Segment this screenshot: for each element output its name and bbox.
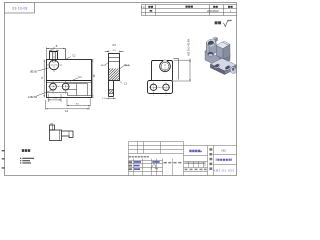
main body outline [47,60,92,98]
right block front face [216,45,223,59]
gap filler under block [221,54,230,63]
top-left file box [5,3,35,14]
left grid cols [137,142,139,154]
right block top bevel [222,41,230,45]
small dim 1.6 over slot [49,49,52,51]
plate right side [220,55,225,67]
middle/right [207,146,209,176]
center lines front view [46,47,71,94]
overall bottom dim [46,108,89,110]
dimensions front view [37,47,94,109]
slot walls [52,52,54,63]
dim 8 top [46,47,65,49]
plate front face [205,51,220,68]
svg-text:03-10-08: 03-10-08 [12,7,27,11]
svg-text:14: 14 [65,109,69,113]
right tab rounded end [230,67,236,74]
svg-text:Ø5.05: Ø5.05 [30,70,37,73]
left vertical dim [43,60,45,98]
flange circles [50,83,57,90]
flange right edge [225,65,237,75]
page border frame [5,3,237,176]
mystery edge / ext of dim 8 [65,48,67,59]
title block texts [129,148,213,170]
section dims [105,50,131,99]
svg-text:M2.5X0.45-6H: M2.5X0.45-6H [188,39,190,56]
hatch [109,69,120,94]
right block top face [216,42,228,49]
right vertical dim [92,60,94,98]
small stacked dims below circles [48,99,61,101]
boss [50,52,58,60]
bottom dim right part [67,104,90,106]
svg-text:M2.5: M2.5 [124,64,130,66]
C1 leader [66,57,71,60]
svg-text:XB2: XB2 [221,148,226,152]
boss top ring [206,38,217,46]
flange top face [210,58,236,71]
slot notch on boss top [213,37,217,39]
C4 leader [70,78,78,81]
roughness symbol (其余 check) [215,20,232,26]
leader phi2.56 [37,90,52,96]
right block right face [223,44,230,59]
flange chamfer line [47,82,92,84]
inner step lines bottom [47,92,68,94]
left grid rows [129,145,184,147]
svg-text:1.0: 1.0 [141,6,145,9]
svg-text:XB2-01-003: XB2-01-003 [213,169,234,173]
boss cylinder side [206,42,216,54]
keyhole circle [49,60,59,70]
keyhole dark hole [207,40,214,46]
flange front edge dark [210,64,224,75]
left border tick marks [2,150,5,168]
leader phi5.05 [38,68,50,71]
flange holes [214,63,221,69]
svg-text:R0.5: R0.5 [101,65,106,67]
svg-text:2021/08/20: 2021/08/20 [207,11,219,13]
flange top edge [47,80,92,82]
bright hole exit on plate [208,52,213,56]
outer [128,142,130,176]
svg-text:2-Ø2.56: 2-Ø2.56 [28,96,38,99]
